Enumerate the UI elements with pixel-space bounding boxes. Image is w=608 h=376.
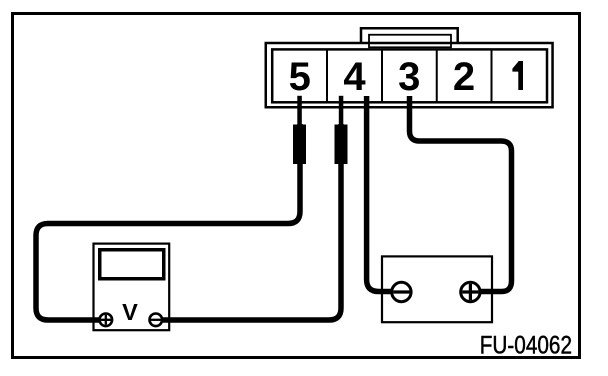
svg-text:3: 3 (398, 55, 420, 99)
svg-text:FU-04062: FU-04062 (480, 331, 572, 359)
svg-text:4: 4 (343, 55, 366, 99)
svg-text:2: 2 (453, 55, 475, 99)
svg-text:V: V (122, 299, 138, 325)
svg-text:5: 5 (289, 55, 311, 99)
